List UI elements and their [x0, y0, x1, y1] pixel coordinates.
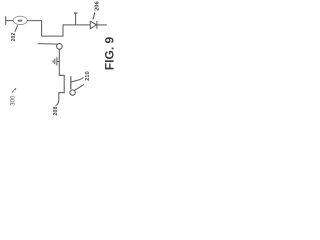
svg-text:206: 206	[95, 0, 101, 10]
svg-text:FIG. 9: FIG. 9	[103, 37, 117, 71]
svg-text:210: 210	[85, 71, 91, 81]
svg-text:202: 202	[11, 33, 17, 42]
svg-text:300: 300	[11, 95, 17, 106]
svg-text:208: 208	[53, 107, 59, 116]
